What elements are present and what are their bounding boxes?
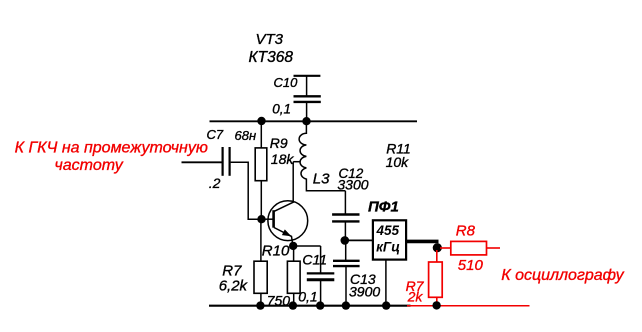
wire emitter to C11: [293, 245, 320, 247]
svg-text:2k: 2k: [407, 289, 424, 305]
node gnd C11: [316, 301, 324, 309]
wire ground rail: [209, 305, 411, 307]
svg-text:455: 455: [376, 223, 400, 238]
node gnd R10: [289, 301, 297, 309]
svg-text:.2: .2: [209, 175, 221, 191]
resistor R7: [254, 261, 267, 293]
wire filter bottom lead: [385, 260, 387, 306]
svg-text:0,1: 0,1: [298, 288, 317, 304]
svg-text:6,2k: 6,2k: [219, 278, 249, 295]
svg-text:750: 750: [267, 293, 291, 309]
svg-text:R10: R10: [262, 242, 290, 259]
svg-text:510: 510: [458, 257, 484, 274]
node gnd R7: [256, 301, 264, 309]
filter U1: [373, 220, 406, 259]
node base: [257, 215, 265, 223]
node gnd C13: [342, 301, 350, 309]
node emitter: [289, 242, 297, 250]
wire C13 bottom stem: [345, 266, 347, 306]
wire R7 top lead: [260, 219, 262, 261]
svg-text:C7: C7: [207, 127, 224, 142]
wire R8 right lead: [487, 247, 501, 249]
svg-text:L3: L3: [313, 171, 330, 188]
capacitor C13: [333, 261, 360, 266]
node output: [433, 243, 442, 252]
node rail R9: [257, 117, 265, 125]
svg-text:18k: 18k: [271, 151, 295, 167]
svg-text:3300: 3300: [337, 176, 368, 192]
svg-text:кГц: кГц: [376, 240, 400, 255]
wire C12 top stem: [344, 191, 346, 215]
wire R7 bottom lead: [260, 293, 262, 306]
wire filter input: [345, 239, 373, 241]
wire R9 top lead: [260, 121, 262, 148]
svg-text:частоту: частоту: [55, 157, 124, 174]
node filter input: [341, 236, 350, 245]
wire L3 tap: [293, 161, 299, 163]
transistor VT3: [268, 201, 308, 246]
wire red ground continuation: [407, 305, 530, 307]
svg-text:ПФ1: ПФ1: [368, 199, 399, 216]
svg-text:C11: C11: [302, 252, 327, 268]
resistor R9: [255, 148, 267, 181]
svg-text:0,1: 0,1: [272, 102, 291, 117]
wire R9 bottom lead: [260, 181, 262, 219]
node rail C10: [302, 117, 310, 125]
svg-text:К ГКЧ на промежуточную: К ГКЧ на промежуточную: [15, 139, 208, 156]
node gnd filter: [382, 301, 390, 309]
svg-text:C10: C10: [274, 75, 299, 90]
svg-text:R8: R8: [456, 222, 476, 239]
resistor R8: [451, 241, 487, 255]
resistor R7 red: [429, 262, 443, 297]
wire C12 bottom stem: [344, 222, 346, 241]
wire C11 top stem: [320, 246, 322, 273]
wire input: [182, 161, 223, 163]
svg-text:10k: 10k: [386, 154, 410, 170]
wire emitter to R10: [293, 246, 295, 261]
node gnd R7 red: [432, 301, 440, 309]
wire C7 to base node: [231, 162, 262, 219]
capacitor C12: [332, 215, 359, 222]
wire upper rail: [210, 120, 418, 122]
capacitor C7: [223, 147, 230, 176]
wire red R7 top lead: [436, 250, 438, 262]
wire red R7 bottom lead: [436, 297, 438, 306]
wire collector: [292, 162, 294, 203]
svg-text:3900: 3900: [349, 284, 380, 300]
capacitor C11: [307, 273, 335, 279]
capacitor C10: [294, 76, 321, 121]
svg-text:R9: R9: [270, 135, 288, 151]
wire base lead: [262, 218, 273, 220]
resistor R10: [287, 261, 300, 293]
wire C13 top stem: [345, 240, 347, 260]
wire R10 bottom lead: [293, 293, 295, 306]
svg-text:VT3: VT3: [256, 31, 284, 48]
wire red to R8: [440, 247, 451, 249]
svg-text:К осциллографу: К осциллографу: [501, 267, 624, 284]
svg-text:68н: 68н: [235, 128, 257, 143]
wire filter output thick: [406, 240, 438, 244]
inductor L3: [299, 121, 345, 191]
wire C11 bottom stem: [320, 280, 322, 306]
svg-text:КТ368: КТ368: [249, 49, 294, 66]
